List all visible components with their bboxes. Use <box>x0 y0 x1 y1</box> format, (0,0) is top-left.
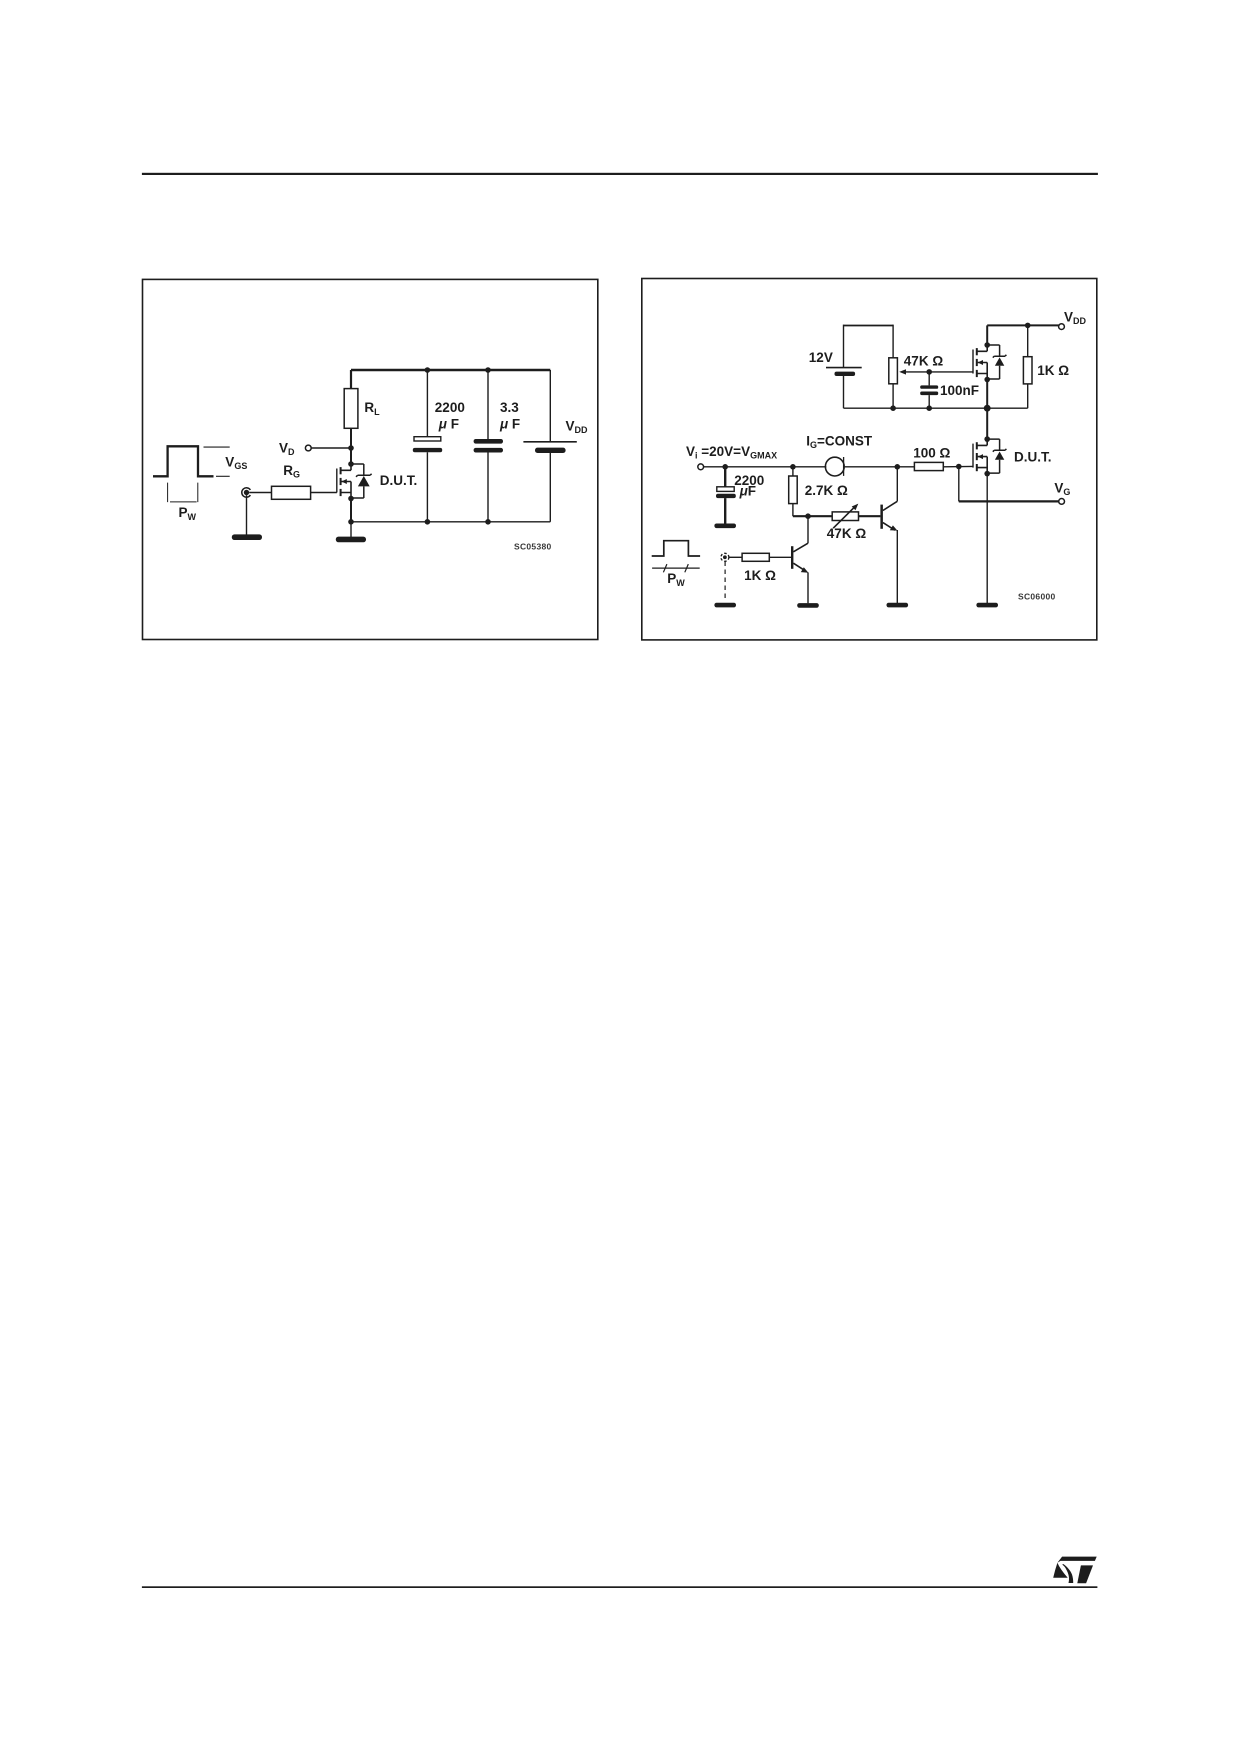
wire DUT source to ground <box>986 473 988 603</box>
transistor Q1 <box>791 543 808 573</box>
wire rail down to DUT <box>986 408 988 439</box>
figure 1 border <box>143 279 598 639</box>
terminal VDD <box>1059 324 1065 330</box>
wire fet source to rail <box>986 379 988 408</box>
svg-text:D.U.T.: D.U.T. <box>1014 449 1052 464</box>
node VDD 1K <box>1025 323 1031 329</box>
terminal VD <box>305 445 311 451</box>
ground (pulse input) <box>714 603 736 608</box>
svg-text:2200: 2200 <box>435 400 465 415</box>
mosfet upper (clamp) <box>973 342 1006 382</box>
input connector fig2 (dashed) <box>721 553 729 561</box>
battery 12V <box>826 325 862 409</box>
dashed wire to ground <box>724 562 726 602</box>
wire 1K bottom <box>1027 384 1029 408</box>
wire connector to RG <box>249 492 271 494</box>
PW bracket <box>168 483 198 503</box>
top rule <box>142 173 1098 175</box>
node VG tap <box>956 464 962 470</box>
terminal VG <box>1059 499 1065 505</box>
VGS reference dash top <box>204 446 230 448</box>
wire Vi to source <box>704 466 827 468</box>
pulse measure line <box>652 567 700 569</box>
capacitor 2200uF fig2 <box>716 467 736 524</box>
wire Q2 collector <box>896 467 898 502</box>
node drain sense <box>348 445 354 451</box>
node bottom C1 <box>425 519 431 525</box>
node gate wire Q2 <box>895 464 901 470</box>
wire top rail to RL <box>350 370 352 389</box>
transistor Q2 <box>880 501 897 530</box>
measure slash 1 <box>663 564 667 572</box>
wire wiper to gate <box>929 371 973 373</box>
terminal Vi <box>698 464 704 470</box>
mid rail <box>844 407 1028 409</box>
node base wire <box>805 513 811 519</box>
node rail C2 <box>485 367 491 373</box>
svg-text:μ F: μ F <box>499 416 520 431</box>
resistor 1K upper <box>1023 357 1032 384</box>
mosfet DUT <box>337 461 372 501</box>
svg-text:3.3: 3.3 <box>500 400 519 415</box>
pulse waveform fig2 <box>652 541 700 556</box>
wire source to 100R <box>845 466 915 468</box>
svg-text:1K Ω: 1K Ω <box>1037 363 1069 378</box>
wire VG horizontal <box>959 500 1059 502</box>
wire 100R to gate <box>943 465 973 467</box>
svg-text:100nF: 100nF <box>940 383 979 398</box>
wire RL to mosfet <box>350 428 352 464</box>
potentiometer wiper arrow <box>899 369 929 374</box>
battery VDD <box>523 370 576 522</box>
input connector <box>242 488 251 497</box>
VGS reference dash bottom <box>216 475 230 477</box>
svg-text:47K Ω: 47K Ω <box>827 526 867 541</box>
node rail cap <box>926 405 932 411</box>
wire source down <box>350 499 352 522</box>
svg-text:1K Ω: 1K Ω <box>744 568 776 583</box>
ground (source) <box>336 537 366 543</box>
node Vi cap <box>722 464 728 470</box>
wire loop right side <box>892 325 894 358</box>
ground (input) <box>232 534 262 540</box>
resistor RG <box>272 486 311 499</box>
wire RG to gate <box>311 492 337 494</box>
base wire thick <box>793 515 832 517</box>
ground (Q1) <box>797 603 819 608</box>
wire Q1 emitter to ground <box>807 572 809 603</box>
wire 1K top <box>1027 325 1029 356</box>
node wiper-cap <box>926 369 932 375</box>
bottom rule <box>142 1586 1098 1588</box>
wire input to ground <box>246 495 248 534</box>
rheostat 47K arrow <box>833 504 858 529</box>
rheostat 47K body <box>832 512 858 521</box>
svg-text:μ F: μ F <box>438 416 459 431</box>
potentiometer 47K body <box>889 358 898 384</box>
wire connector to 1K <box>729 556 742 558</box>
wire 1K to Q1 base <box>769 556 791 558</box>
resistor 2.7K <box>789 467 798 516</box>
battery 12V loop top wire <box>844 325 894 327</box>
svg-text:2.7K Ω: 2.7K Ω <box>805 483 848 498</box>
resistor 100R <box>914 462 943 470</box>
svg-text:D.U.T.: D.U.T. <box>380 473 418 488</box>
svg-text:IG=CONST: IG=CONST <box>806 433 873 450</box>
svg-text:SC05380: SC05380 <box>514 542 552 552</box>
bottom rail <box>351 521 550 523</box>
node source-rail <box>348 519 354 525</box>
ground (2200uF) <box>714 524 736 529</box>
wire VD to drain <box>311 447 351 449</box>
node rail C1 <box>425 367 431 373</box>
wire Q1 collector <box>807 516 809 543</box>
current source IG <box>825 457 844 476</box>
figure 2 border <box>642 279 1097 640</box>
resistor RL <box>344 389 358 429</box>
resistor 1K base <box>742 553 769 561</box>
wire VG tap down <box>958 467 960 502</box>
wire source to ground <box>350 522 352 537</box>
ST logo <box>1053 1557 1097 1584</box>
svg-text:47K Ω: 47K Ω <box>904 354 944 369</box>
capacitor 100nF <box>920 372 938 408</box>
measure slash 2 <box>685 564 689 572</box>
wire 47K to Q2 base <box>859 515 881 517</box>
wire VDD down to fet <box>986 325 988 345</box>
ground (Q2) <box>887 603 909 608</box>
wire Q2 emitter to ground <box>896 530 898 603</box>
capacitor C2 3.3uF <box>474 370 503 522</box>
node Vi 2.7K <box>790 464 796 470</box>
svg-text:12V: 12V <box>809 350 833 365</box>
VDD top wire <box>987 324 1058 326</box>
top rail <box>351 369 550 371</box>
capacitor C1 2200uF <box>413 370 442 522</box>
svg-text:SC06000: SC06000 <box>1018 591 1056 601</box>
node rail pot <box>890 405 896 411</box>
svg-text:μF: μF <box>739 483 756 498</box>
ground (DUT source) <box>976 603 998 608</box>
pulse waveform VGS <box>153 446 214 476</box>
node rail fet <box>984 405 991 412</box>
svg-text:100 Ω: 100 Ω <box>913 446 950 461</box>
mosfet DUT fig2 <box>973 436 1006 476</box>
wire pot to rail <box>892 384 894 408</box>
node bottom C2 <box>485 519 491 525</box>
